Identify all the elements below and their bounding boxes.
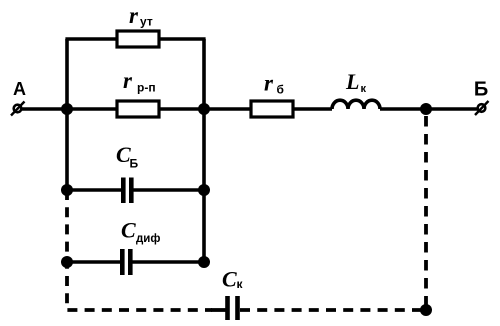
- node dot Cdif left: [61, 256, 73, 268]
- resistor R ut box: [117, 31, 159, 47]
- wire dashed left bus down and bottom to C k: [67, 190, 212, 310]
- wire dashed vertical right: [424, 116, 428, 306]
- wire right bus to rb: [204, 107, 251, 111]
- label r ut: [129, 3, 153, 29]
- wire C B branch left: [67, 188, 121, 192]
- label C B: [116, 142, 139, 171]
- svg-text:ут: ут: [140, 15, 153, 29]
- wire right bus vertical solid: [202, 39, 206, 262]
- wire coil to node: [380, 107, 426, 111]
- node dot Cdif right: [198, 256, 210, 268]
- capacitor C dif plates: [122, 249, 130, 275]
- wire C B branch right: [134, 188, 205, 192]
- svg-text:к: к: [361, 83, 367, 95]
- resistor R p-n box: [117, 101, 159, 117]
- svg-text:р-п: р-п: [137, 81, 156, 95]
- wire C dif branch left: [67, 260, 120, 264]
- svg-text:диф: диф: [136, 233, 160, 245]
- svg-text:r: r: [129, 3, 139, 28]
- capacitor C k plates: [228, 296, 238, 320]
- resistor R b box: [251, 101, 293, 117]
- wire top branch left: [65, 37, 117, 41]
- wire rb to coil: [293, 107, 332, 111]
- wire node to terminal B: [426, 107, 478, 111]
- svg-text:r: r: [264, 71, 274, 96]
- svg-text:б: б: [277, 83, 284, 97]
- svg-text:А: А: [13, 79, 26, 99]
- label C k: [222, 267, 244, 292]
- label r b: [264, 71, 284, 97]
- wire top branch right: [159, 37, 206, 41]
- wire main branch right: [159, 107, 204, 111]
- wire dashed bottom right from C k to node: [240, 308, 426, 312]
- svg-text:L: L: [345, 69, 359, 94]
- wire A to left bus: [22, 107, 68, 111]
- node dot Lk right: [420, 103, 432, 115]
- terminal A circle: [11, 102, 25, 116]
- capacitor C B plates: [123, 178, 131, 204]
- svg-text:к: к: [237, 277, 244, 291]
- node dot main left: [61, 103, 73, 115]
- node dot CB left: [61, 184, 73, 196]
- wire left bus vertical solid: [65, 39, 69, 190]
- wire C dif branch right: [133, 260, 205, 264]
- inductor L k coil: [332, 100, 380, 109]
- wire stub to C k left plate: [211, 308, 226, 312]
- wire main branch left: [67, 107, 117, 111]
- label L k: [345, 69, 367, 95]
- svg-text:r: r: [123, 68, 133, 93]
- terminal B circle: [475, 101, 489, 115]
- node dot main right: [198, 103, 210, 115]
- svg-text:Б: Б: [130, 157, 139, 171]
- svg-text:C: C: [121, 218, 136, 243]
- svg-text:C: C: [222, 267, 237, 292]
- label C dif: [121, 218, 160, 246]
- node dot bottom right: [420, 304, 432, 316]
- node dot CB right: [198, 184, 210, 196]
- label r p-n: [123, 68, 156, 95]
- svg-text:Б: Б: [474, 79, 488, 101]
